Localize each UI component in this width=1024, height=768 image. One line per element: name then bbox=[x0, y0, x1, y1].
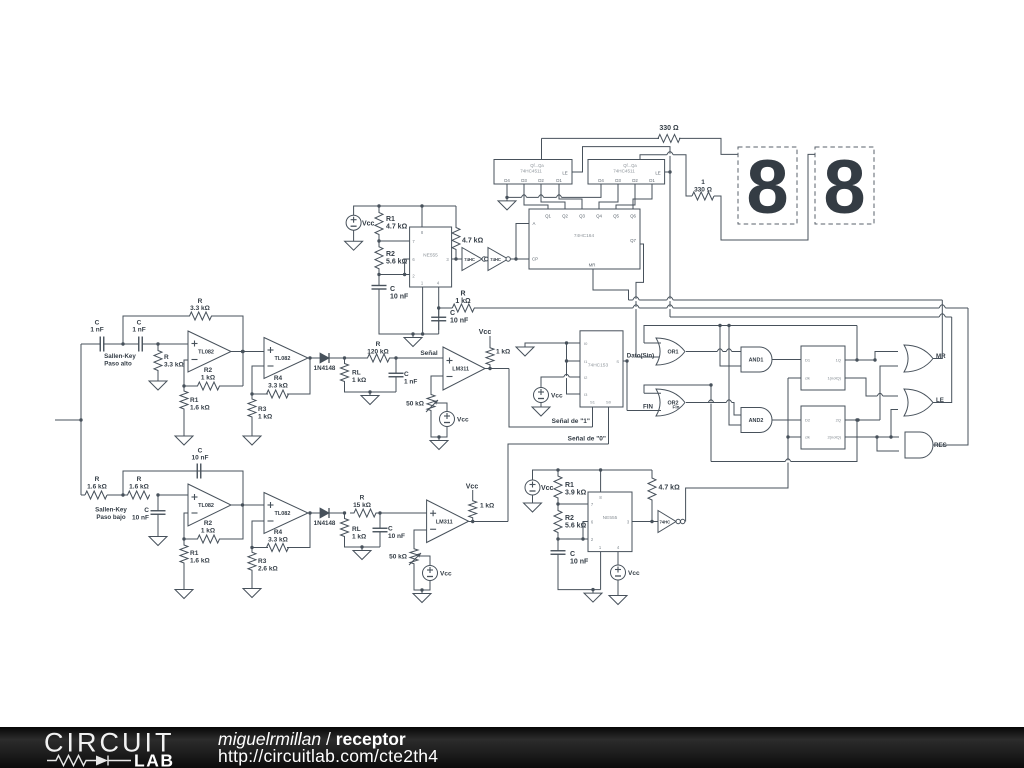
svg-text:D4: D4 bbox=[504, 178, 510, 183]
svg-text:Señal: Señal bbox=[420, 350, 438, 357]
svg-text:D2: D2 bbox=[805, 418, 811, 423]
svg-text:R: R bbox=[164, 354, 169, 361]
svg-text:R3: R3 bbox=[258, 406, 267, 413]
svg-text:1.6 kΩ: 1.6 kΩ bbox=[190, 558, 210, 565]
svg-text:1 kΩ: 1 kΩ bbox=[480, 503, 494, 510]
svg-text:R: R bbox=[376, 341, 381, 348]
svg-text:RL: RL bbox=[352, 526, 361, 533]
svg-text:74HC164: 74HC164 bbox=[574, 233, 595, 239]
svg-text:C: C bbox=[450, 310, 455, 317]
svg-text:330 Ω: 330 Ω bbox=[659, 125, 679, 132]
svg-text:LE: LE bbox=[562, 171, 567, 176]
svg-text:TL082: TL082 bbox=[275, 356, 291, 362]
svg-text:R1: R1 bbox=[190, 397, 199, 404]
svg-text:Vcc: Vcc bbox=[466, 484, 479, 491]
svg-text:1 kΩ: 1 kΩ bbox=[352, 534, 366, 541]
svg-text:10 nF: 10 nF bbox=[390, 294, 409, 301]
svg-text:D2: D2 bbox=[632, 178, 638, 183]
svg-text:74HC: 74HC bbox=[659, 519, 670, 524]
svg-text:15 kΩ: 15 kΩ bbox=[353, 502, 371, 509]
svg-text:clk: clk bbox=[805, 435, 810, 440]
svg-text:R3: R3 bbox=[258, 558, 267, 565]
svg-text:3.3 kΩ: 3.3 kΩ bbox=[268, 383, 288, 390]
svg-text:TL082: TL082 bbox=[198, 350, 214, 356]
svg-text:C: C bbox=[198, 448, 203, 455]
svg-text:D3: D3 bbox=[615, 178, 621, 183]
svg-text:Q7: Q7 bbox=[630, 238, 636, 243]
svg-text:Sallen-Key: Sallen-Key bbox=[95, 507, 127, 514]
svg-text:1N4148: 1N4148 bbox=[314, 520, 336, 527]
svg-text:1(notQ): 1(notQ) bbox=[827, 376, 841, 381]
svg-text:A: A bbox=[533, 221, 536, 226]
svg-text:Paso bajo: Paso bajo bbox=[96, 514, 125, 521]
svg-text:AND1: AND1 bbox=[749, 358, 764, 364]
svg-text:Vcc: Vcc bbox=[440, 571, 452, 578]
svg-text:R2: R2 bbox=[386, 251, 395, 258]
svg-text:Q5: Q5 bbox=[613, 214, 619, 219]
svg-text:1.6 kΩ: 1.6 kΩ bbox=[190, 405, 210, 412]
svg-text:Paso alto: Paso alto bbox=[104, 361, 132, 368]
svg-text:R1: R1 bbox=[386, 216, 395, 223]
svg-text:OR1: OR1 bbox=[667, 350, 678, 356]
svg-text:Sallen-Key: Sallen-Key bbox=[104, 353, 136, 360]
svg-text:S: S bbox=[616, 359, 619, 364]
svg-text:10 nF: 10 nF bbox=[132, 515, 149, 522]
svg-text:LAB: LAB bbox=[134, 751, 174, 768]
svg-text:CP: CP bbox=[532, 257, 538, 262]
svg-text:120 kΩ: 120 kΩ bbox=[367, 349, 388, 356]
svg-text:R: R bbox=[460, 291, 465, 298]
svg-text:Vcc: Vcc bbox=[362, 221, 375, 228]
svg-text:Vcc: Vcc bbox=[628, 570, 640, 577]
svg-text:AND2: AND2 bbox=[749, 418, 764, 424]
svg-text:74HC4511: 74HC4511 bbox=[613, 169, 635, 174]
svg-text:8: 8 bbox=[746, 145, 788, 230]
svg-text:1 nF: 1 nF bbox=[90, 327, 103, 334]
svg-text:LM311: LM311 bbox=[452, 367, 469, 373]
svg-text:RL: RL bbox=[352, 370, 361, 377]
svg-text:TL082: TL082 bbox=[198, 503, 214, 509]
svg-text:TL082: TL082 bbox=[275, 511, 291, 517]
svg-text:D1: D1 bbox=[556, 178, 562, 183]
svg-text:Dato(Sin): Dato(Sin) bbox=[627, 353, 655, 360]
svg-text:74HC: 74HC bbox=[464, 257, 475, 262]
svg-text:2(notQ): 2(notQ) bbox=[827, 435, 841, 440]
svg-text:R2: R2 bbox=[204, 367, 213, 374]
svg-text:Señal de "0": Señal de "0" bbox=[568, 436, 606, 443]
svg-text:R4: R4 bbox=[274, 529, 283, 536]
svg-text:Q1: Q1 bbox=[545, 214, 551, 219]
svg-text:10 nF: 10 nF bbox=[570, 559, 589, 566]
svg-text:1: 1 bbox=[701, 179, 705, 186]
svg-text:1N4148: 1N4148 bbox=[314, 365, 336, 372]
svg-text:4.7 kΩ: 4.7 kΩ bbox=[462, 238, 484, 245]
svg-text:D4: D4 bbox=[598, 178, 604, 183]
svg-text:C: C bbox=[404, 371, 409, 378]
svg-text:C: C bbox=[144, 507, 149, 514]
svg-text:R: R bbox=[360, 495, 365, 502]
svg-text:2.6 kΩ: 2.6 kΩ bbox=[258, 566, 278, 573]
svg-text:2Q: 2Q bbox=[836, 418, 841, 423]
svg-text:Vcc: Vcc bbox=[479, 329, 492, 336]
svg-text:1 kΩ: 1 kΩ bbox=[201, 528, 215, 535]
svg-text:74HC: 74HC bbox=[490, 257, 501, 262]
svg-text:Fin: Fin bbox=[673, 405, 680, 410]
svg-text:C: C bbox=[390, 286, 395, 293]
svg-text:MR: MR bbox=[589, 263, 596, 268]
svg-text:Q6: Q6 bbox=[630, 214, 636, 219]
svg-text:Q2: Q2 bbox=[562, 214, 568, 219]
svg-text:10 nF: 10 nF bbox=[450, 318, 469, 325]
svg-text:1 kΩ: 1 kΩ bbox=[201, 375, 215, 382]
svg-text:1.6 kΩ: 1.6 kΩ bbox=[129, 484, 149, 491]
svg-text:LM311: LM311 bbox=[436, 519, 453, 525]
svg-text:10 nF: 10 nF bbox=[192, 455, 209, 462]
svg-text:C: C bbox=[570, 551, 575, 558]
svg-text:R: R bbox=[137, 476, 142, 483]
svg-text:8: 8 bbox=[823, 145, 865, 230]
svg-text:R2: R2 bbox=[204, 520, 213, 527]
svg-text:C: C bbox=[95, 320, 100, 327]
svg-text:R1: R1 bbox=[190, 550, 199, 557]
svg-text:1Q: 1Q bbox=[836, 358, 841, 363]
svg-text:R: R bbox=[198, 298, 203, 305]
svg-text:1 nF: 1 nF bbox=[132, 327, 145, 334]
svg-text:clk: clk bbox=[805, 376, 810, 381]
svg-text:D2: D2 bbox=[538, 178, 544, 183]
svg-text:LE: LE bbox=[655, 171, 660, 176]
svg-text:3.3 kΩ: 3.3 kΩ bbox=[268, 537, 288, 544]
svg-text:1.6 kΩ: 1.6 kΩ bbox=[87, 484, 107, 491]
svg-text:Vcc: Vcc bbox=[457, 417, 469, 424]
svg-text:D1: D1 bbox=[649, 178, 655, 183]
svg-text:Q4: Q4 bbox=[596, 214, 602, 219]
svg-text:4.7 kΩ: 4.7 kΩ bbox=[386, 224, 408, 231]
svg-text:FIN: FIN bbox=[643, 404, 653, 411]
svg-text:4.7 kΩ: 4.7 kΩ bbox=[659, 485, 681, 492]
svg-text:C: C bbox=[137, 320, 142, 327]
svg-text:Qf...Qa: Qf...Qa bbox=[530, 163, 544, 168]
svg-text:10 nF: 10 nF bbox=[388, 533, 405, 540]
svg-text:NE555: NE555 bbox=[423, 253, 438, 259]
svg-text:50 kΩ: 50 kΩ bbox=[389, 554, 407, 561]
svg-text:NE555: NE555 bbox=[603, 515, 618, 521]
svg-text:Qf...Qa: Qf...Qa bbox=[623, 163, 637, 168]
svg-text:74HC4511: 74HC4511 bbox=[520, 169, 542, 174]
svg-text:3.3 kΩ: 3.3 kΩ bbox=[164, 362, 184, 369]
svg-text:R: R bbox=[95, 476, 100, 483]
svg-text:Vcc: Vcc bbox=[541, 485, 554, 492]
svg-text:1 nF: 1 nF bbox=[404, 379, 417, 386]
svg-text:D1: D1 bbox=[805, 358, 811, 363]
svg-text:1 kΩ: 1 kΩ bbox=[352, 377, 366, 384]
svg-text:Q3: Q3 bbox=[579, 214, 585, 219]
svg-text:C: C bbox=[388, 526, 393, 533]
svg-text:1 kΩ: 1 kΩ bbox=[496, 349, 510, 356]
svg-text:3.9 kΩ: 3.9 kΩ bbox=[565, 490, 587, 497]
svg-text:D3: D3 bbox=[521, 178, 527, 183]
svg-text:R4: R4 bbox=[274, 375, 283, 382]
svg-text:74HC153: 74HC153 bbox=[588, 363, 609, 369]
svg-text:R2: R2 bbox=[565, 515, 574, 522]
svg-text:50 kΩ: 50 kΩ bbox=[406, 401, 424, 408]
svg-text:S0: S0 bbox=[606, 400, 612, 405]
svg-text:S1: S1 bbox=[590, 400, 596, 405]
svg-text:Señal de "1": Señal de "1" bbox=[552, 418, 590, 425]
svg-text:Vcc: Vcc bbox=[551, 393, 563, 400]
svg-text:3.3 kΩ: 3.3 kΩ bbox=[190, 305, 210, 312]
svg-text:1 kΩ: 1 kΩ bbox=[258, 414, 272, 421]
svg-text:R1: R1 bbox=[565, 482, 574, 489]
